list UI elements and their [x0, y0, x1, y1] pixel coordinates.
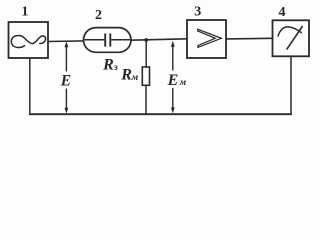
svg-text:1: 1 [21, 4, 28, 19]
svg-text:R: R [102, 56, 114, 73]
svg-text:E: E [60, 72, 71, 89]
svg-text:4: 4 [279, 5, 286, 20]
svg-text:2: 2 [95, 8, 102, 23]
svg-text:E: E [167, 72, 179, 89]
svg-text:м: м [131, 73, 139, 83]
svg-text:м: м [179, 78, 187, 88]
svg-text:з: з [113, 63, 118, 73]
svg-text:3: 3 [194, 4, 201, 19]
svg-text:R: R [120, 66, 132, 83]
